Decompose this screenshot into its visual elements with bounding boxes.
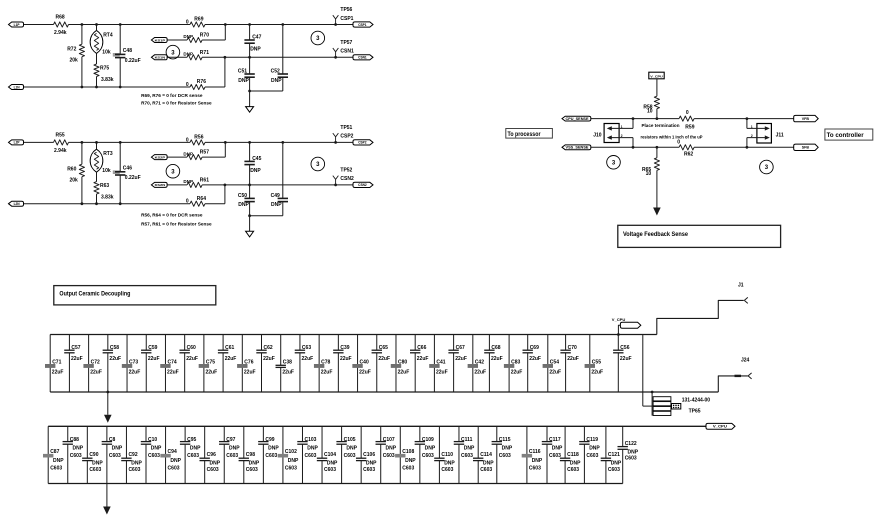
svg-text:R56, R64 = 0 for DCR sense: R56, R64 = 0 for DCR sense [141, 213, 203, 218]
svg-text:DNP: DNP [532, 458, 543, 464]
svg-text:resistors within 1 inch of the: resistors within 1 inch of the uP [641, 135, 703, 140]
svg-text:22uF: 22uF [109, 356, 121, 362]
svg-text:V_CPU: V_CPU [650, 74, 663, 78]
svg-text:C39: C39 [340, 345, 349, 351]
capacitor C78 22uF [314, 335, 332, 393]
wire L1N input net [24, 86, 225, 88]
svg-text:C60: C60 [187, 345, 196, 351]
svg-text:CSP1: CSP1 [358, 23, 367, 27]
svg-text:20k: 20k [70, 178, 79, 184]
capacitor C65 22uF [372, 335, 390, 393]
svg-text:3: 3 [316, 36, 320, 42]
svg-text:C603: C603 [265, 453, 277, 459]
capacitor C72 22uF [83, 335, 101, 393]
svg-text:C118: C118 [567, 452, 579, 458]
svg-text:DNP: DNP [250, 168, 261, 174]
capacitor C39 22uF [333, 335, 351, 393]
wire row1 right edge [642, 335, 644, 407]
svg-text:C111: C111 [461, 437, 473, 443]
resistor R65 10 [642, 146, 659, 177]
svg-text:22uF: 22uF [529, 356, 541, 362]
svg-text:DNP: DNP [151, 446, 162, 452]
svg-text:R69, R76 = 0 for DCR sense: R69, R76 = 0 for DCR sense [141, 93, 203, 98]
resistor R56 0 [186, 135, 205, 145]
svg-text:C105: C105 [344, 437, 356, 443]
capacitor C103 DNP C0603 [297, 426, 318, 483]
node L1N [9, 85, 24, 90]
wire ground node [248, 214, 283, 217]
svg-text:C10: C10 [148, 437, 157, 443]
svg-text:C42: C42 [475, 359, 484, 365]
svg-text:22uF: 22uF [148, 356, 160, 362]
svg-text:10k: 10k [102, 49, 111, 55]
svg-text:C67: C67 [456, 345, 465, 351]
node CSP2 [353, 140, 373, 145]
capacitor C8 DNP C0603 [102, 426, 123, 483]
svg-text:DNP: DNP [405, 458, 416, 464]
svg-text:L1N: L1N [14, 85, 21, 89]
svg-text:C603: C603 [128, 467, 140, 473]
capacitor C40 22uF [352, 335, 370, 393]
svg-text:DNP: DNP [238, 78, 249, 84]
jumper J10 [593, 124, 633, 143]
svg-text:KS2P: KS2P [155, 155, 166, 159]
capacitor C66 22uF [410, 335, 428, 393]
svg-text:J11: J11 [776, 133, 784, 139]
svg-text:DNP: DNP [483, 460, 494, 466]
svg-text:22uF: 22uF [455, 356, 467, 362]
resistor R72 20k [67, 23, 84, 88]
svg-text:0: 0 [677, 140, 680, 146]
svg-text:C106: C106 [363, 452, 375, 458]
capacitor C76 22uF [237, 335, 255, 393]
node sheet ref circle 3 left [166, 45, 180, 59]
wire V_CPU top bus row2 [48, 425, 706, 427]
svg-text:C603: C603 [422, 453, 434, 459]
wire arrow row1 to row2 [104, 391, 112, 423]
node CPU_SENSE [562, 116, 591, 121]
svg-text:KS2N: KS2N [155, 183, 166, 187]
svg-text:2: 2 [621, 134, 623, 138]
resistor R61 DNP [183, 178, 209, 188]
svg-text:22uF: 22uF [321, 369, 333, 375]
note R57 R61 resistor sense [141, 221, 212, 226]
svg-text:22uF: 22uF [205, 369, 217, 375]
capacitor C115 DNP C0603 [492, 426, 513, 483]
svg-text:C96: C96 [207, 452, 216, 458]
svg-text:C47: C47 [252, 34, 261, 40]
capacitor C107 DNP C0603 [376, 426, 397, 483]
wire bus to connector J24 [718, 376, 748, 392]
capacitor C97 DNP C0603 [219, 426, 240, 483]
svg-text:CSP1: CSP1 [340, 16, 353, 22]
svg-text:C603: C603 [285, 465, 297, 471]
svg-text:C38: C38 [283, 359, 292, 365]
svg-text:C603: C603 [148, 453, 160, 459]
svg-text:C603: C603 [567, 467, 579, 473]
ground [246, 216, 254, 237]
testpoint TP57 CSN1 [333, 40, 354, 59]
node L2P [9, 140, 24, 145]
capacitor C102 DNP C0603 [278, 426, 299, 483]
note To controller box [825, 129, 873, 140]
svg-text:DNP: DNP [229, 446, 240, 452]
capacitor C63 22uF [295, 335, 313, 393]
resistor R60 20k [67, 141, 84, 205]
svg-text:J1: J1 [738, 283, 744, 289]
svg-text:RT4: RT4 [103, 32, 113, 38]
svg-text:R68: R68 [56, 15, 65, 21]
resistor R62 0 [677, 140, 694, 158]
svg-text:C603: C603 [187, 453, 199, 459]
resistor R63 3.83k [94, 182, 114, 206]
note To processor box [506, 129, 553, 139]
svg-text:TP51: TP51 [340, 125, 352, 131]
ground [246, 91, 254, 112]
svg-text:DNP: DNP [131, 460, 142, 466]
svg-text:C95: C95 [187, 437, 196, 443]
capacitor C71 22uF [45, 335, 63, 393]
resistor R57 DNP [183, 150, 209, 160]
svg-text:R60: R60 [67, 166, 76, 172]
capacitor C57 22uF [64, 335, 82, 393]
capacitor C122 DNP C0603 [618, 426, 639, 483]
svg-text:C87: C87 [50, 449, 59, 455]
svg-text:C603: C603 [89, 467, 101, 473]
svg-text:CSN2: CSN2 [340, 176, 354, 182]
capacitor C104 DNP C0603 [317, 426, 338, 483]
capacitor C62 22uF [256, 335, 274, 393]
svg-text:2.94k: 2.94k [54, 30, 67, 36]
svg-text:C108: C108 [402, 449, 414, 455]
svg-text:C76: C76 [244, 359, 253, 365]
svg-text:DNP: DNP [238, 202, 249, 208]
svg-text:C98: C98 [246, 452, 255, 458]
capacitor C92 DNP C0603 [121, 426, 142, 483]
capacitor C70 22uF [560, 335, 578, 393]
svg-text:22uF: 22uF [591, 369, 603, 375]
svg-text:C56: C56 [620, 345, 629, 351]
capacitor C83 22uF [504, 335, 522, 393]
node CSP1 [353, 22, 373, 27]
svg-text:22uF: 22uF [417, 356, 429, 362]
svg-text:DNP: DNP [570, 460, 581, 466]
svg-text:0: 0 [186, 199, 189, 205]
resistor R58 10 [643, 96, 659, 114]
svg-text:22uF: 22uF [436, 369, 448, 375]
svg-text:L2P: L2P [14, 141, 21, 145]
svg-text:22uF: 22uF [302, 356, 314, 362]
node sheet ref circle 3 left [166, 164, 180, 178]
svg-text:3: 3 [765, 165, 769, 171]
svg-text:C603: C603 [480, 467, 492, 473]
svg-text:C72: C72 [91, 359, 100, 365]
node sheet ref circle 3 right [311, 157, 325, 171]
svg-text:CSN2: CSN2 [358, 183, 367, 187]
wire L1P input net [24, 24, 354, 26]
svg-text:3.83k: 3.83k [101, 195, 114, 201]
svg-text:R59: R59 [685, 124, 694, 130]
svg-text:DNP: DNP [552, 446, 563, 452]
capacitor C106 DNP C0603 [356, 426, 377, 483]
svg-text:R64: R64 [197, 196, 206, 202]
capacitor C95 DNP C0603 [180, 426, 201, 483]
svg-text:C88: C88 [70, 437, 79, 443]
svg-text:C107: C107 [383, 437, 395, 443]
svg-text:DNP: DNP [271, 78, 282, 84]
note R56 R64 DCR sense [141, 213, 203, 218]
node KS2P net wire [167, 141, 227, 157]
svg-text:22uF: 22uF [52, 369, 64, 375]
svg-text:C49: C49 [271, 193, 280, 199]
svg-text:22uF: 22uF [225, 356, 237, 362]
svg-text:C73: C73 [129, 359, 138, 365]
capacitor C80 22uF [391, 335, 409, 393]
svg-text:R61: R61 [200, 178, 209, 184]
svg-text:R57, R61 = 0 for Resistor Sens: R57, R61 = 0 for Resistor Sense [141, 221, 212, 226]
svg-text:22uF: 22uF [129, 369, 141, 375]
svg-text:22uF: 22uF [359, 369, 371, 375]
svg-text:DNP: DNP [307, 446, 318, 452]
node L2N [9, 201, 24, 206]
svg-text:C65: C65 [379, 345, 388, 351]
svg-text:R72: R72 [67, 46, 76, 52]
testpoint TP56 CSP1 [333, 7, 354, 26]
svg-text:3: 3 [171, 50, 175, 56]
wire L2N input net [24, 203, 225, 205]
node VFB [794, 115, 819, 121]
svg-text:R70, R71 = 0 for Resistor Sens: R70, R71 = 0 for Resistor Sense [141, 100, 212, 105]
svg-text:C603: C603 [304, 453, 316, 459]
svg-text:CSN1: CSN1 [340, 49, 354, 55]
resistor R68 2.94k [54, 15, 69, 37]
capacitor C52 DNP [271, 23, 288, 91]
svg-text:VFB: VFB [802, 117, 810, 121]
svg-text:C62: C62 [264, 345, 273, 351]
connector J1 [738, 283, 748, 304]
svg-text:DNP: DNP [112, 446, 123, 452]
svg-text:C61: C61 [225, 345, 234, 351]
svg-text:C71: C71 [52, 359, 61, 365]
svg-text:22uF: 22uF [511, 369, 523, 375]
svg-text:DNP: DNP [183, 179, 193, 184]
svg-text:R56: R56 [194, 135, 203, 141]
capacitor C10 DNP C0603 [141, 426, 162, 483]
svg-text:C603: C603 [586, 453, 598, 459]
node SFB [794, 144, 819, 150]
node V_CPU power tag row1 [612, 317, 641, 336]
capacitor C109 DNP C0603 [415, 426, 436, 483]
capacitor C59 22uF [141, 335, 159, 393]
svg-text:C603: C603 [441, 467, 453, 473]
circle 3 ref J11 side [760, 160, 774, 174]
svg-text:J10: J10 [593, 132, 602, 138]
svg-text:DNP: DNP [183, 151, 193, 156]
capacitor C42 22uF [468, 335, 486, 393]
svg-text:DNP: DNP [250, 46, 261, 52]
svg-text:C92: C92 [128, 452, 137, 458]
svg-text:R76: R76 [197, 79, 206, 85]
svg-text:RT3: RT3 [103, 151, 113, 157]
capacitor C119 DNP C0603 [579, 426, 600, 483]
svg-text:C69: C69 [530, 345, 539, 351]
svg-text:SFB: SFB [802, 146, 810, 150]
svg-text:C83: C83 [511, 359, 520, 365]
svg-text:C75: C75 [206, 359, 215, 365]
svg-text:22uF: 22uF [263, 356, 275, 362]
svg-text:C603: C603 [363, 467, 375, 473]
capacitor C56 22uF [613, 335, 631, 393]
svg-text:0: 0 [186, 137, 189, 143]
svg-text:C603: C603 [549, 453, 561, 459]
capacitor C96 DNP C0603 [199, 426, 220, 483]
svg-text:C116: C116 [529, 449, 541, 455]
node V_CPU power port [649, 72, 664, 79]
node sheet ref circle 3 right [311, 31, 325, 45]
svg-text:L2N: L2N [14, 202, 21, 206]
svg-text:C114: C114 [480, 452, 492, 458]
svg-text:C70: C70 [568, 345, 577, 351]
capacitor C117 DNP C0603 [542, 426, 563, 483]
svg-text:C66: C66 [417, 345, 426, 351]
svg-text:R63: R63 [100, 183, 109, 189]
svg-text:L1P: L1P [14, 23, 21, 27]
node VSS_SENSE [562, 145, 591, 150]
svg-text:22uF: 22uF [620, 356, 632, 362]
svg-text:0: 0 [686, 110, 689, 116]
svg-text:C103: C103 [304, 437, 316, 443]
capacitor C105 DNP C0603 [336, 426, 357, 483]
node V_CPU power tag row2 [706, 423, 735, 429]
svg-text:0: 0 [186, 20, 189, 26]
wire J10 pin1 stub [632, 117, 635, 128]
svg-text:DNP: DNP [249, 460, 260, 466]
svg-text:C57: C57 [71, 345, 80, 351]
svg-text:C603: C603 [402, 465, 414, 471]
svg-text:C54: C54 [550, 359, 559, 365]
capacitor C90 DNP C0603 [82, 426, 103, 483]
wire CPU_SENSE net [591, 118, 794, 120]
node KS1P [151, 38, 167, 43]
capacitor C55 22uF [585, 335, 603, 393]
svg-text:C122: C122 [625, 441, 637, 447]
svg-text:DNP: DNP [288, 458, 299, 464]
svg-text:C55: C55 [592, 359, 601, 365]
svg-text:10k: 10k [102, 168, 111, 174]
svg-text:22uF: 22uF [186, 356, 198, 362]
svg-text:DNP: DNP [92, 460, 103, 466]
resistor R55 2.94k [54, 132, 69, 154]
svg-text:C603: C603 [608, 467, 620, 473]
svg-text:C90: C90 [89, 452, 98, 458]
svg-text:22uF: 22uF [567, 356, 579, 362]
svg-text:C40: C40 [360, 359, 369, 365]
svg-text:2: 2 [751, 134, 753, 138]
svg-text:22uF: 22uF [340, 356, 352, 362]
node CSN1 [353, 55, 373, 60]
svg-text:TP65: TP65 [689, 409, 701, 415]
capacitor C88 DNP C0603 [63, 426, 84, 483]
svg-text:C603: C603 [109, 453, 121, 459]
wire J10 pin2 stub [632, 138, 635, 149]
svg-text:R55: R55 [56, 132, 65, 138]
svg-text:C603: C603 [383, 453, 395, 459]
thermistor RT3 10k [90, 141, 113, 182]
resistor R71 DNP [183, 50, 209, 60]
svg-text:DNP: DNP [366, 460, 377, 466]
node KS2P [151, 155, 167, 160]
wire bus to connector J1 [657, 300, 744, 334]
capacitor C75 22uF [199, 335, 217, 393]
svg-text:C603: C603 [70, 453, 82, 459]
wire J11 pin2 stub [746, 138, 749, 149]
svg-text:3.83k: 3.83k [101, 77, 114, 83]
capacitor C60 22uF [179, 335, 197, 393]
svg-text:C80: C80 [398, 359, 407, 365]
capacitor C98 DNP C0603 [239, 426, 260, 483]
capacitor C61 22uF [218, 335, 236, 393]
svg-text:C99: C99 [265, 437, 274, 443]
capacitor C74 22uF [160, 335, 178, 393]
testpoint TP52 CSN2 [333, 167, 354, 186]
svg-text:C603: C603 [529, 465, 541, 471]
capacitor C69 22uF [523, 335, 541, 393]
capacitor C73 22uF [122, 335, 140, 393]
svg-text:To controller: To controller [827, 133, 865, 139]
svg-text:C58: C58 [110, 345, 119, 351]
capacitor C58 22uF [103, 335, 121, 393]
svg-text:0.22uF: 0.22uF [125, 175, 141, 181]
svg-text:R57: R57 [200, 150, 209, 156]
svg-text:1: 1 [751, 125, 753, 129]
svg-text:22uF: 22uF [378, 356, 390, 362]
svg-text:C59: C59 [148, 345, 157, 351]
resistor R70 DNP [183, 33, 209, 43]
svg-text:DNP: DNP [170, 458, 181, 464]
svg-text:DNP: DNP [53, 458, 64, 464]
svg-text:C46: C46 [123, 166, 132, 172]
svg-text:3: 3 [316, 162, 320, 168]
capacitor C114 DNP C0603 [473, 426, 494, 483]
svg-text:DNP: DNP [444, 460, 455, 466]
wire ground bottom bus row1 [50, 391, 718, 393]
capacitor C54 22uF [543, 335, 561, 393]
svg-text:Place termination: Place termination [642, 123, 680, 128]
testpoint TP51 CSP2 [333, 125, 354, 144]
svg-text:22uF: 22uF [549, 369, 561, 375]
svg-text:22uF: 22uF [167, 369, 179, 375]
svg-text:DNP: DNP [346, 446, 357, 452]
svg-text:C119: C119 [586, 437, 598, 443]
svg-text:DNP: DNP [464, 446, 475, 452]
resistor R59 0 [679, 110, 695, 130]
resistor R76 0 [186, 79, 206, 89]
node KS1N [151, 55, 167, 60]
svg-text:C117: C117 [549, 437, 561, 443]
svg-text:KS1P: KS1P [155, 38, 166, 42]
thermistor RT4 10k [90, 23, 113, 64]
svg-text:C603: C603 [246, 467, 258, 473]
svg-text:C603: C603 [625, 455, 637, 461]
capacitor C111 DNP C0603 [454, 426, 475, 483]
svg-text:C603: C603 [207, 467, 219, 473]
svg-text:C68: C68 [491, 345, 500, 351]
svg-text:C74: C74 [167, 359, 176, 365]
capacitor C87 DNP C0603 [43, 426, 64, 483]
svg-text:DNP: DNP [73, 446, 84, 452]
svg-text:0: 0 [186, 82, 189, 88]
svg-text:TP57: TP57 [340, 40, 352, 46]
